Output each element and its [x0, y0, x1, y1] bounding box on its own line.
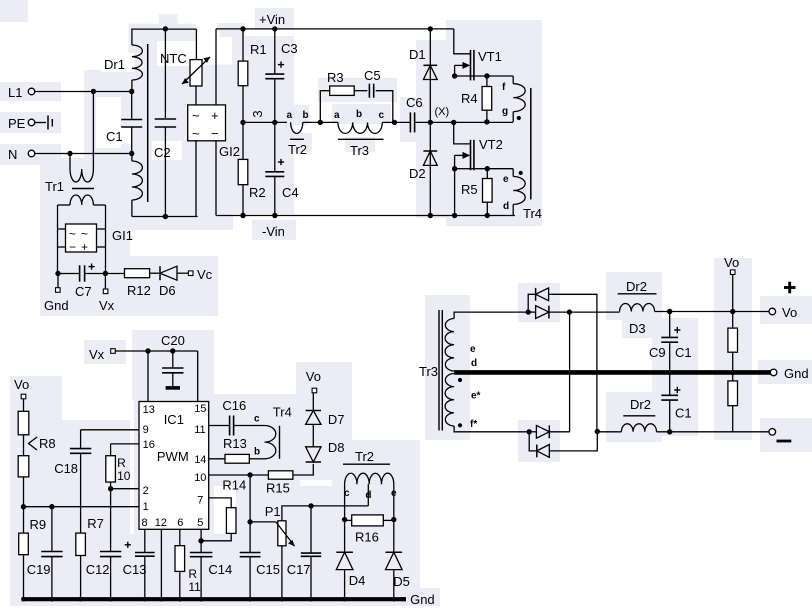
resistor R9: [19, 507, 29, 598]
junction C2 bottom: [163, 214, 168, 219]
wire D1 column: [429, 29, 431, 123]
resistor R14: [226, 508, 236, 534]
svg-text:C4: C4: [282, 185, 299, 200]
junction X D column: [428, 120, 433, 125]
wire D2 column: [429, 122, 431, 215]
label fb2 e: [391, 488, 397, 499]
svg-text:−: −: [211, 126, 219, 141]
wire plus node row: [528, 311, 619, 313]
terminal N: [8, 147, 35, 162]
wire Tr3 to C6: [382, 121, 410, 123]
junction D2 -Vin: [428, 213, 433, 218]
svg-text:8: 8: [142, 517, 148, 529]
label D8: [328, 440, 345, 455]
junction C9 top: [667, 309, 672, 314]
svg-text:R16: R16: [355, 530, 379, 545]
label VT2: [479, 137, 503, 152]
wire pin5 stub: [200, 529, 202, 541]
label C16: [222, 398, 246, 413]
wire Vo stub: [732, 275, 734, 312]
label Dr2 lower: [630, 397, 651, 412]
svg-text:16: 16: [143, 439, 155, 451]
polarity dot e: [519, 171, 523, 175]
svg-text:g: g: [502, 106, 508, 117]
label C15: [256, 562, 280, 577]
resistor load lower: [728, 372, 738, 431]
polarity dot sec lower: [458, 423, 462, 427]
polarity dot sec upper: [458, 378, 462, 382]
transformer Tr3 secondary winding upper half: [445, 319, 454, 372]
label fb b: [254, 447, 260, 458]
svg-text:C14: C14: [208, 562, 232, 577]
svg-text:D6: D6: [159, 283, 176, 298]
svg-text:14: 14: [194, 454, 206, 466]
svg-text:P1: P1: [265, 504, 281, 519]
wire -Vin rail: [216, 215, 515, 217]
svg-text:2: 2: [143, 485, 149, 497]
svg-text:Tr2: Tr2: [355, 449, 374, 464]
svg-text:R1: R1: [250, 42, 267, 57]
resistor R2: [238, 122, 248, 215]
svg-text:R13: R13: [223, 436, 247, 451]
junction R5 top: [485, 166, 490, 171]
transformer Tr2 winding a-b: [291, 122, 303, 133]
wire to upper return diode: [528, 294, 535, 312]
svg-text:e: e: [470, 344, 476, 355]
wire R12 D6: [150, 272, 160, 274]
svg-text:Vo: Vo: [782, 305, 797, 320]
terminal Gnd left: [44, 274, 69, 314]
wire d tap down: [367, 484, 369, 506]
diode D3 lower return: [537, 445, 550, 458]
diode D4: [336, 552, 353, 569]
svg-text:e*: e*: [471, 391, 481, 402]
capacitor C6: [410, 112, 414, 132]
junction R4 bottom: [484, 119, 489, 124]
transistor VT2: [454, 122, 474, 170]
junction bus dots: [21, 597, 396, 602]
label PWM: [157, 449, 189, 464]
svg-text:D2: D2: [409, 166, 426, 181]
junction C9 bus: [667, 370, 672, 375]
diode D6: [159, 266, 177, 298]
label R1: [250, 42, 267, 57]
junction Vx rail dots: [145, 348, 175, 353]
svg-text:11: 11: [194, 424, 205, 436]
label Tr2 fb: [355, 449, 374, 464]
label C17: [287, 562, 311, 577]
wire D7 to Vo: [312, 393, 314, 411]
capacitor C20: [162, 351, 183, 386]
label VT1: [478, 49, 502, 64]
junction C2 top: [163, 26, 168, 31]
transformer Tr4 fb core: [279, 426, 281, 459]
capacitor C18: [70, 430, 91, 533]
label e upper: [503, 174, 509, 185]
junction C1 bottom: [667, 429, 672, 434]
wire +Vin rail: [216, 28, 454, 30]
IC1 pin numbers: [142, 403, 207, 529]
R8 adjust arrow: [29, 437, 38, 450]
transformer Tr4 winding e-d: [513, 169, 525, 216]
capacitor C1: [121, 92, 142, 154]
svg-text:3: 3: [250, 110, 265, 117]
label -Vin: [262, 224, 285, 239]
label Tr2: [288, 142, 307, 157]
svg-text:R: R: [117, 456, 126, 470]
label C20: [161, 333, 185, 348]
wire Vo row: [655, 311, 769, 313]
junction mid node dots: [240, 120, 277, 125]
label R9: [30, 517, 47, 532]
label node X: [435, 106, 450, 118]
wire pin7 to R14: [209, 498, 232, 508]
svg-text:R14: R14: [222, 478, 246, 493]
label C7: [75, 284, 92, 299]
terminal Vo stub top: [724, 255, 739, 275]
wire R15 to D8: [293, 464, 313, 475]
P1 wiper arrow: [276, 522, 295, 546]
junction C1 N: [129, 151, 134, 156]
wire to lower return diode: [529, 432, 537, 451]
diode D5: [386, 552, 403, 569]
svg-text:7: 7: [197, 495, 203, 507]
wire Tr2 to Tr3: [303, 121, 338, 123]
svg-text:+: +: [211, 108, 219, 123]
label C5: [364, 68, 381, 83]
wire D5 to bus: [393, 570, 395, 598]
svg-text:Tr1: Tr1: [45, 179, 64, 194]
label D2: [409, 166, 426, 181]
wire pin13 riser: [147, 351, 149, 402]
transformer Tr3 secondary winding lower half: [445, 374, 454, 427]
svg-text:Tr4: Tr4: [273, 404, 292, 419]
svg-text:C1: C1: [675, 406, 692, 421]
transformer Tr4 winding f-g: [513, 76, 525, 122]
inductor Dr1 upper winding: [132, 45, 143, 92]
svg-text:R3: R3: [327, 70, 344, 85]
wire C6 to X: [415, 121, 454, 123]
transformer Tr1 core: [72, 188, 94, 190]
wire Vo to R8: [23, 399, 25, 412]
svg-text:D5: D5: [393, 574, 410, 589]
resistor R10: [106, 444, 116, 482]
diode D3 lower forward: [536, 425, 549, 438]
wire Tr1 to GI1 left: [57, 205, 59, 274]
svg-text:~: ~: [192, 108, 200, 123]
terminal minus output: [769, 429, 776, 436]
inductor Dr1 core: [147, 44, 149, 202]
svg-text:Tr4: Tr4: [523, 206, 542, 221]
wire pin2 row: [111, 488, 139, 490]
junction VT1 source: [452, 73, 457, 78]
inductor Dr2 upper: [620, 303, 655, 311]
svg-text:R15: R15: [266, 481, 290, 496]
label node 3: [250, 110, 265, 117]
svg-text:D3: D3: [629, 321, 646, 336]
svg-text:Dr2: Dr2: [626, 279, 647, 294]
bridge rectifier GI2: [188, 105, 226, 141]
wire AC2 stub: [529, 431, 536, 433]
svg-text:b: b: [254, 447, 260, 458]
transformer Tr2 fb core: [343, 463, 390, 465]
wire GI2 minus: [215, 141, 217, 216]
wire to R15: [250, 474, 268, 476]
wire pin1 row: [24, 506, 140, 508]
resistor R11: [175, 529, 185, 598]
wire AC bottom rail: [132, 216, 198, 218]
svg-text:C20: C20: [161, 333, 185, 348]
resistor R4: [482, 76, 492, 122]
diode D7: [306, 411, 321, 425]
label C1 upper: [675, 345, 692, 360]
svg-text:D1: D1: [409, 47, 426, 62]
label C2: [154, 145, 171, 160]
capacitor C4: [265, 122, 284, 215]
junction -Vin rail dots: [240, 213, 277, 218]
label GI1: [112, 228, 133, 243]
label NTC: [160, 51, 187, 66]
svg-text:C3: C3: [281, 41, 298, 56]
svg-text:6: 6: [177, 517, 183, 529]
svg-text:C1: C1: [106, 129, 123, 144]
wire Gnd bus bottom: [22, 597, 406, 601]
wire P1 top to d tap: [282, 506, 368, 521]
svg-text:C19: C19: [27, 562, 51, 577]
svg-text:+Vin: +Vin: [259, 12, 285, 27]
svg-text:C2: C2: [154, 145, 171, 160]
wire GI2 plus: [215, 29, 217, 105]
wire P1 bottom: [281, 546, 283, 598]
transformer Tr3 winding a-c: [338, 122, 382, 133]
svg-text:5: 5: [197, 517, 203, 529]
wire pin12 stub: [160, 529, 162, 598]
bridge rectifier GI1: [58, 224, 106, 254]
resistor R12: [125, 269, 151, 298]
wire N rail: [35, 153, 132, 155]
svg-text:R9: R9: [30, 517, 47, 532]
svg-text:~: ~: [192, 126, 200, 141]
diode D2: [423, 151, 437, 165]
transformer Tr3 core line: [338, 138, 384, 140]
label R11: [188, 567, 201, 594]
label C1: [106, 129, 123, 144]
junction +Vin rail dots: [240, 26, 433, 31]
diode D8: [306, 447, 321, 462]
svg-text:C15: C15: [256, 562, 280, 577]
diode D1: [423, 65, 437, 79]
label C19: [27, 562, 51, 577]
svg-text:+: +: [81, 240, 88, 254]
label +Vin: [259, 12, 285, 27]
label C18: [54, 461, 78, 476]
junction load top: [730, 309, 735, 314]
junction P1 wiper node: [247, 519, 252, 524]
wire Vx rail: [115, 350, 197, 352]
minus output sign: [777, 440, 792, 443]
junction N Tr1: [67, 151, 72, 156]
junction C17 top: [308, 503, 313, 508]
resistor R1: [238, 29, 248, 123]
label Gnd bottom: [410, 592, 435, 607]
svg-text:IC1: IC1: [164, 412, 184, 427]
junction C7 row: [55, 271, 108, 276]
svg-text:NTC: NTC: [160, 51, 187, 66]
resistor load upper: [728, 312, 738, 373]
svg-text:c: c: [254, 414, 260, 425]
capacitor C17: [301, 506, 321, 598]
inductor Dr1 lower winding: [132, 154, 143, 217]
svg-text:N: N: [8, 147, 17, 162]
label R2: [249, 185, 266, 200]
label C6: [406, 95, 423, 110]
svg-text:Gnd: Gnd: [44, 298, 69, 313]
terminal Vx lower: [99, 274, 115, 314]
svg-text:12: 12: [155, 517, 167, 529]
PE earth symbol: [35, 116, 53, 130]
svg-text:9: 9: [143, 424, 149, 436]
junction X VT: [451, 120, 456, 125]
svg-text:e: e: [503, 174, 509, 185]
label fb2 d: [365, 490, 371, 501]
wire R13 to b: [249, 458, 264, 460]
transformer Tr2 core: [290, 138, 304, 140]
label C12: [86, 562, 110, 577]
wire to P1 wiper: [250, 521, 276, 523]
capacitor C16: [230, 416, 234, 436]
capacitor C12: [100, 489, 121, 598]
capacitor C9 C1 upper: [661, 312, 680, 373]
inductor Dr2 upper core: [618, 293, 657, 295]
resistor R15: [268, 471, 293, 479]
wire pin9 row: [81, 429, 139, 431]
Gnd bus end cap: [402, 597, 406, 601]
svg-text:−: −: [69, 240, 76, 254]
wire VT1 source row: [455, 75, 514, 77]
svg-text:10: 10: [194, 472, 206, 484]
svg-text:Dr2: Dr2: [630, 397, 651, 412]
junction loop left: [318, 120, 323, 125]
wire pin11 row: [209, 425, 230, 427]
label IC1: [164, 412, 184, 427]
svg-text:C5: C5: [364, 68, 381, 83]
svg-text:PWM: PWM: [157, 449, 189, 464]
capacitor C2: [155, 29, 176, 217]
label C1 lower: [675, 406, 692, 421]
junction Dr1 C1 top: [129, 89, 134, 94]
svg-text:C16: C16: [222, 398, 246, 413]
label C14: [208, 562, 232, 577]
svg-text:Tr3: Tr3: [350, 143, 369, 158]
svg-text:Vx: Vx: [89, 347, 105, 362]
wire lower to riser: [549, 431, 569, 433]
svg-text:VT2: VT2: [479, 137, 503, 152]
label R4: [461, 91, 478, 106]
svg-text:Vo: Vo: [724, 255, 739, 270]
junction R16 right: [391, 517, 396, 522]
svg-text:R: R: [188, 567, 197, 581]
svg-text:a: a: [287, 110, 293, 121]
wire minus row left: [597, 431, 621, 433]
junction L1 Tr1: [91, 89, 96, 94]
wire Tr1 to GI1 right: [105, 205, 107, 274]
junction VT2 -Vin: [452, 213, 457, 218]
svg-text:PE: PE: [8, 116, 26, 131]
label GI2: [219, 144, 240, 159]
svg-text:GI1: GI1: [112, 228, 133, 243]
label Tr3 c: [379, 110, 385, 121]
label D5: [393, 574, 410, 589]
C20 ground bar: [166, 386, 180, 390]
wire X row right: [454, 121, 514, 123]
svg-text:D4: D4: [349, 573, 366, 588]
junction C19 top: [49, 504, 54, 509]
svg-text:D8: D8: [328, 440, 345, 455]
wire VT2 source row: [455, 168, 514, 170]
wire GI2 ac return: [195, 141, 197, 217]
junction R16 left: [342, 517, 347, 522]
junction plus node: [567, 309, 572, 314]
svg-text:c: c: [379, 110, 385, 121]
svg-text:C6: C6: [406, 95, 423, 110]
label R3: [327, 70, 344, 85]
junction R8 R9: [21, 504, 26, 509]
svg-text:D7: D7: [328, 412, 345, 427]
label R8: [39, 436, 56, 451]
wire winding top to diodes: [454, 312, 528, 318]
label C9: [649, 345, 666, 360]
label D7: [328, 412, 345, 427]
junction R10 pin2: [108, 486, 113, 491]
label Dr2 upper: [626, 279, 647, 294]
svg-text:Vx: Vx: [99, 298, 115, 313]
terminal PE: [8, 116, 35, 131]
wire mid node: [243, 121, 287, 123]
plus output sign: [784, 282, 796, 294]
wire D4 to bus: [344, 570, 346, 598]
svg-text:-Vin: -Vin: [262, 224, 285, 239]
label D1: [409, 47, 426, 62]
transformer Tr1 secondary winding: [58, 195, 106, 205]
label Tr2 b: [303, 110, 309, 121]
resistor R13: [225, 454, 249, 463]
wire minus row right: [657, 431, 770, 433]
svg-text:Vo: Vo: [306, 369, 321, 384]
thermistor NTC: [182, 57, 210, 86]
wire Gnd bus output: [454, 370, 771, 375]
capacitor C3: [265, 29, 284, 123]
svg-text:VT1: VT1: [478, 49, 502, 64]
terminal L1: [8, 85, 35, 100]
svg-text:f*: f*: [470, 419, 477, 430]
IC IC1 PWM controller box: [139, 402, 209, 530]
label D3: [629, 321, 646, 336]
label Tr3: [350, 143, 369, 158]
transformer Tr2 winding c-d-e: [345, 473, 394, 484]
transformer Tr1 primary winding: [70, 92, 93, 183]
svg-text:R7: R7: [87, 516, 104, 531]
terminal Vo snubber: [306, 369, 321, 393]
label P1: [265, 504, 281, 519]
wire pin15 riser: [197, 351, 199, 402]
junction AC2: [527, 429, 532, 434]
label d lower: [503, 201, 509, 212]
svg-text:~: ~: [81, 227, 88, 241]
label R15: [266, 481, 290, 496]
transformer Tr4 core: [530, 88, 532, 199]
svg-text:C9: C9: [649, 345, 666, 360]
svg-text:R2: R2: [249, 185, 266, 200]
